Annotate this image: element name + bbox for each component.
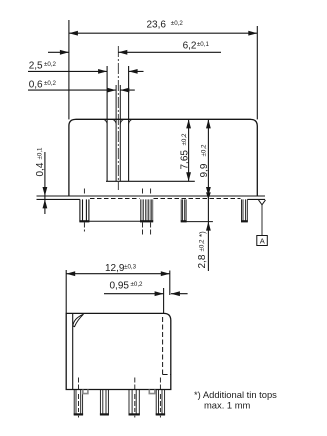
arrow 0.4 top (outside) bbox=[43, 187, 48, 196]
arrow 2.8 top (down, at flange bottom) bbox=[206, 192, 211, 199]
pin P1 bbox=[80, 199, 89, 221]
svg-text:2,5: 2,5 bbox=[29, 61, 43, 72]
dim 2.5 line bbox=[28, 70, 144, 72]
slot inner left line bbox=[115, 85, 117, 181]
svg-text:±0,2: ±0,2 bbox=[44, 80, 57, 87]
arrow 2.5 left (outside) bbox=[98, 69, 107, 74]
svg-text:±0,2: ±0,2 bbox=[199, 239, 206, 252]
arrow 0.4 bottom (outside) bbox=[43, 199, 48, 208]
base flange top line bbox=[37, 195, 266, 197]
pin P4 bbox=[242, 199, 248, 221]
svg-text:6,2: 6,2 bbox=[183, 41, 197, 52]
body top line across slot bbox=[76, 118, 251, 120]
slot root fillets bbox=[104, 119, 133, 123]
slot centerline dash-dot bbox=[117, 46, 119, 190]
arrow 2.8 bottom (up, below pin tip) bbox=[206, 222, 211, 231]
base flange bottom line solid left bbox=[37, 198, 80, 200]
arrow 12.9 left bbox=[66, 271, 75, 276]
front hidden right edge dashed bbox=[163, 317, 171, 375]
svg-text:0,6: 0,6 bbox=[29, 80, 43, 91]
label 9,9 rotated bbox=[199, 144, 210, 178]
arrow 0.95 right (outside) bbox=[171, 291, 180, 296]
svg-text:0,95: 0,95 bbox=[110, 280, 130, 291]
notch left of front P4 bbox=[149, 390, 155, 394]
dim 23.6 right extension bbox=[256, 26, 258, 119]
arrowheads bbox=[43, 31, 258, 296]
notch right of front P1 bbox=[83, 390, 88, 394]
base flange bottom line solid right bbox=[247, 198, 265, 200]
front pin P1 bbox=[74, 390, 82, 415]
dim 12.9 line bbox=[66, 273, 170, 275]
svg-text:±0,2: ±0,2 bbox=[44, 61, 57, 68]
slot bottom line / 7.65 extension bbox=[106, 180, 195, 182]
2.8 pin-tip extension line bbox=[186, 221, 213, 223]
arrow 6.2 right (outside) bbox=[118, 50, 127, 55]
svg-text:±0,1: ±0,1 bbox=[197, 41, 210, 48]
arrow 9.9 top bbox=[206, 119, 211, 128]
front left seam bbox=[72, 313, 74, 389]
svg-text:0,4: 0,4 bbox=[35, 162, 46, 176]
svg-text:23,6: 23,6 bbox=[147, 19, 167, 30]
dim 9.9 / 2.8 vertical line bbox=[207, 119, 209, 271]
dim 6.2 line bbox=[48, 51, 221, 53]
svg-text:max. 1 mm: max. 1 mm bbox=[204, 399, 251, 410]
dim 0.95 left extension bbox=[163, 288, 165, 313]
slot outer right line bbox=[128, 66, 130, 181]
dim 0.4 vertical line bbox=[44, 152, 46, 214]
base flange bottom hidden dashed bbox=[90, 198, 140, 200]
svg-text:±0,2: ±0,2 bbox=[171, 20, 184, 27]
arrow 6.2 left (outside) bbox=[60, 50, 69, 55]
dim 7.65 vertical line bbox=[188, 119, 190, 181]
arrow 12.9 right bbox=[161, 271, 170, 276]
front wedge flap bbox=[73, 314, 84, 326]
svg-text:2,8: 2,8 bbox=[197, 254, 208, 268]
slot inner right line bbox=[119, 85, 121, 181]
arrow 23.6 left bbox=[69, 31, 78, 36]
front pin P4 bbox=[156, 390, 164, 415]
svg-text:12,9: 12,9 bbox=[105, 263, 125, 274]
pin P3 bbox=[181, 199, 186, 221]
svg-text:±0,2: ±0,2 bbox=[181, 133, 188, 146]
dim 0.6 line bbox=[28, 89, 135, 91]
arrow 0.95 left (outside) bbox=[155, 291, 164, 296]
dim 12.9 right extension bbox=[169, 271, 171, 296]
datum box A bbox=[257, 236, 268, 246]
pin P2 centerlines bbox=[143, 189, 151, 237]
svg-text:*) Additional tin tops: *) Additional tin tops bbox=[194, 389, 277, 400]
svg-text:7,65: 7,65 bbox=[179, 150, 190, 170]
svg-text:*): *) bbox=[198, 231, 207, 237]
pin tip extension line P1-P2 bbox=[80, 220, 153, 222]
arrow 2.5 right (outside) bbox=[129, 69, 138, 74]
svg-text:±0,3: ±0,3 bbox=[124, 264, 137, 271]
label 2,8 rotated bbox=[197, 231, 208, 269]
slot outer left line bbox=[106, 66, 108, 181]
dim 0.95 line bbox=[104, 293, 188, 295]
arrow 0.6 left (outside) bbox=[107, 88, 116, 93]
svg-text:A: A bbox=[260, 236, 265, 245]
arrow 7.65 bottom bbox=[186, 172, 191, 181]
label 7,65 rotated bbox=[179, 133, 190, 170]
datum triangle bbox=[259, 200, 266, 205]
datum leader bbox=[261, 205, 263, 236]
svg-text:9,9: 9,9 bbox=[199, 163, 210, 177]
front pin P3 bbox=[129, 390, 139, 415]
svg-text:±0,2: ±0,2 bbox=[131, 281, 144, 288]
label 0,4 rotated bbox=[35, 147, 46, 177]
front body outline bbox=[66, 313, 171, 389]
arrow 0.6 right (outside) bbox=[120, 88, 129, 93]
svg-text:±0,1: ±0,1 bbox=[37, 147, 44, 160]
arrow 23.6 right bbox=[248, 31, 257, 36]
front pin P2 bbox=[100, 390, 108, 415]
dim 12.9 left extension bbox=[65, 270, 67, 313]
dim 23.6 line bbox=[69, 32, 257, 34]
arrow 9.9 bottom bbox=[206, 187, 211, 196]
pin cluster P2 bbox=[140, 199, 152, 221]
svg-text:±0,2: ±0,2 bbox=[201, 144, 208, 157]
relay body outline bbox=[69, 119, 257, 196]
dim 23.6 left extension bbox=[68, 20, 70, 119]
pin P1 centerline bbox=[83, 189, 85, 232]
arrow 7.65 top bbox=[186, 119, 191, 128]
